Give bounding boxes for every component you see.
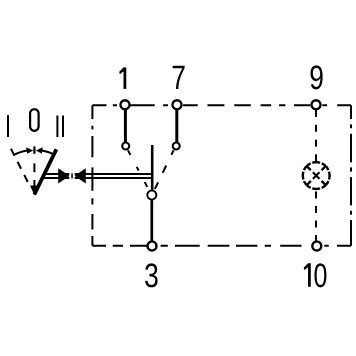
svg-text:0: 0 <box>313 257 327 295</box>
lever position I (dashed line) <box>11 149 28 182</box>
detent centre pin <box>71 173 73 178</box>
terminal 9 <box>312 100 321 109</box>
detent symbol left triangle <box>58 168 69 183</box>
label II (position marker) <box>57 116 63 138</box>
pivot contact circle <box>147 191 156 200</box>
terminal 3 <box>148 242 157 251</box>
terminal 7 <box>173 100 182 109</box>
wire bottom edge <box>92 245 351 247</box>
enclosure box (dash-dot border) <box>92 105 351 246</box>
label terminal 10 (drawn 1 + text 0) <box>304 263 311 287</box>
arrowhead left (points right to tick) <box>26 147 33 154</box>
detent symbol right triangle <box>74 168 85 183</box>
svg-text:7: 7 <box>171 59 186 97</box>
label I (position marker) <box>7 115 9 137</box>
wire pivot to terminal 3 <box>150 200 153 243</box>
wire right edge <box>350 105 352 246</box>
lamp circuit wire lamp to 10 (dashed) <box>315 190 317 241</box>
actuator rod (double line) <box>42 174 152 178</box>
arrowhead right (points left to tick) <box>36 147 43 154</box>
svg-text:3: 3 <box>144 257 159 295</box>
wire left edge <box>91 105 93 246</box>
motion arc left <box>14 150 29 155</box>
contact path to 7 (dashed) <box>154 150 173 190</box>
svg-text:9: 9 <box>309 59 324 97</box>
lever position 0 (dashed centre line) <box>33 163 35 186</box>
motion arc right <box>40 150 54 154</box>
contact circle under 7 <box>173 143 180 150</box>
label 0 (position marker) <box>30 109 38 131</box>
lever (actuator, position II) <box>34 149 56 194</box>
wire top edge <box>92 104 351 106</box>
label terminal 1 (drawn glyph) <box>119 67 126 89</box>
lamp circuit wire 9 to lamp (dashed) <box>315 110 317 162</box>
lamp X rim segments <box>306 165 326 185</box>
arrowhead at pivot (centre line) <box>30 186 39 196</box>
wire terminal 7 to contact <box>175 109 178 143</box>
lamp X centre cross <box>313 172 320 179</box>
contact path to 1 (dashed) <box>128 150 149 190</box>
contact circle under 1 <box>122 143 129 150</box>
detent gap knockout <box>69 168 74 184</box>
moving contact arm <box>151 145 154 190</box>
lamp L (dashed circle) <box>303 162 330 189</box>
terminal 1 <box>121 100 130 109</box>
lever position 0 tick <box>33 147 35 154</box>
wire terminal 1 to contact <box>124 109 127 143</box>
terminal 10 <box>312 242 321 251</box>
